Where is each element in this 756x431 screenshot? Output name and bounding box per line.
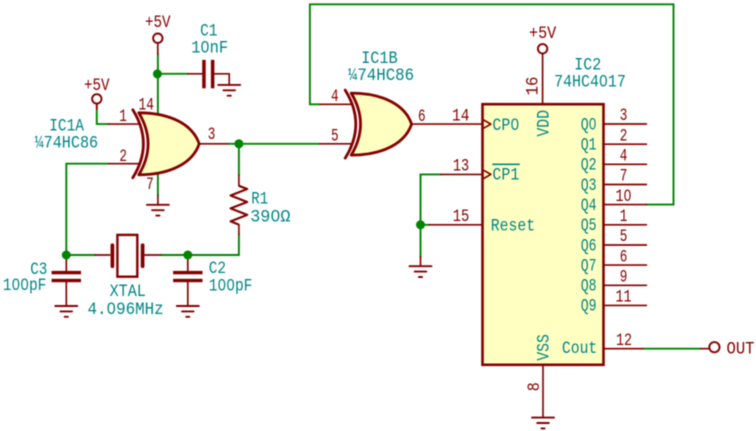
svg-text:¼74HC86: ¼74HC86 [348, 66, 414, 86]
svg-text:CP1: CP1 [492, 166, 519, 186]
svg-text:Q4: Q4 [581, 196, 597, 216]
svg-text:Cout: Cout [562, 339, 597, 359]
svg-text:7: 7 [620, 167, 628, 187]
svg-text:¼74HC86: ¼74HC86 [35, 134, 99, 154]
svg-text:16: 16 [524, 77, 544, 96]
svg-text:5: 5 [331, 127, 339, 147]
svg-text:OUT: OUT [727, 340, 755, 360]
svg-text:Q7: Q7 [581, 256, 597, 276]
svg-text:15: 15 [453, 207, 470, 227]
svg-text:390Ω: 390Ω [250, 207, 290, 227]
svg-text:+5V: +5V [84, 76, 110, 96]
svg-text:VSS: VSS [534, 334, 554, 361]
svg-text:6: 6 [418, 107, 426, 127]
svg-text:7: 7 [146, 175, 154, 195]
svg-text:100pF: 100pF [209, 276, 253, 296]
svg-text:11: 11 [616, 288, 632, 308]
svg-text:Q5: Q5 [581, 216, 597, 236]
svg-text:Q6: Q6 [581, 236, 597, 256]
svg-text:4.096MHz: 4.096MHz [88, 300, 164, 320]
svg-text:74HC4017: 74HC4017 [554, 73, 626, 93]
svg-text:4: 4 [331, 87, 339, 107]
svg-text:1: 1 [119, 107, 127, 127]
svg-text:14: 14 [139, 96, 154, 116]
svg-text:XTAL: XTAL [110, 282, 146, 302]
svg-text:8: 8 [525, 382, 545, 391]
svg-text:12: 12 [616, 331, 632, 351]
svg-text:3: 3 [208, 125, 216, 145]
svg-text:100pF: 100pF [3, 276, 47, 296]
svg-text:Q8: Q8 [581, 277, 597, 297]
svg-text:10: 10 [616, 187, 632, 207]
svg-text:CP0: CP0 [492, 116, 519, 136]
svg-text:Reset: Reset [491, 217, 535, 237]
svg-text:2: 2 [620, 126, 628, 146]
svg-text:1: 1 [620, 207, 628, 227]
svg-text:Q0: Q0 [581, 115, 597, 135]
svg-text:+5V: +5V [145, 13, 171, 33]
svg-text:Q3: Q3 [581, 176, 597, 196]
svg-text:4: 4 [620, 147, 628, 167]
svg-text:Q1: Q1 [581, 136, 597, 156]
svg-text:10nF: 10nF [191, 39, 228, 59]
svg-text:6: 6 [620, 247, 628, 267]
svg-text:14: 14 [452, 107, 469, 127]
svg-text:5: 5 [620, 227, 628, 247]
svg-text:Q2: Q2 [581, 156, 597, 176]
svg-text:9: 9 [620, 268, 628, 288]
svg-text:3: 3 [620, 106, 628, 126]
svg-text:13: 13 [453, 157, 469, 177]
svg-text:VDD: VDD [534, 110, 554, 137]
svg-text:2: 2 [119, 147, 127, 167]
svg-text:+5V: +5V [529, 24, 557, 44]
svg-text:Q9: Q9 [581, 297, 597, 317]
